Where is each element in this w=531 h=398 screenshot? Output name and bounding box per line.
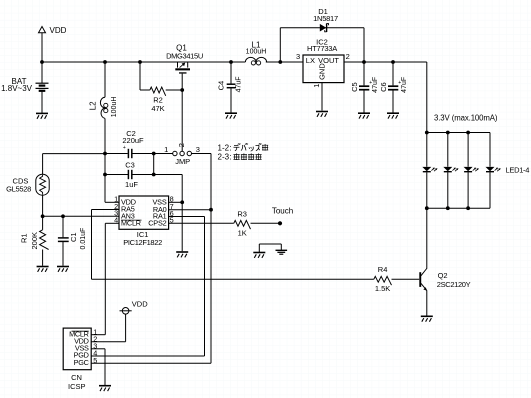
svg-text:R1: R1 [19,233,28,243]
wire IC1 VDD pin1 [105,201,119,203]
transistor Q2 2SC2120Y (NPN) [419,208,470,315]
power symbol VDD (ICSP) [91,299,148,341]
wire LED top bus [427,132,490,134]
note 1-2 debug / 2-3 normal [218,143,269,161]
svg-text:5: 5 [93,356,97,365]
resistor R1 200K [19,216,48,265]
svg-text:R3: R3 [237,210,247,219]
svg-text:R4: R4 [378,265,388,274]
svg-text::: : [230,143,232,152]
junction rail-C4 [229,60,233,64]
wire IC1 RA1 pin6 to ICSP PGD [91,217,204,357]
junction C3 right [152,173,156,177]
svg-text:47uF: 47uF [401,77,408,93]
svg-text:DMG3415U: DMG3415U [166,51,203,60]
junction rail-D1/LX [278,60,282,64]
ground (C6) [387,113,399,118]
junction AN3-R1 [41,214,45,218]
svg-text:C3: C3 [125,160,135,169]
svg-text:Q2: Q2 [438,271,448,280]
wire VBAT rail (y=62) [42,61,303,63]
svg-text:VDD: VDD [132,299,148,308]
svg-text:C1: C1 [69,232,78,242]
resistor R3 1K [169,210,280,238]
svg-text:CPS2: CPS2 [148,219,166,228]
svg-text:PIC12F1822: PIC12F1822 [123,238,162,247]
svg-text:2: 2 [346,52,350,61]
junction R2-gate [180,88,184,92]
svg-text:LED1-4: LED1-4 [506,165,530,174]
capacitor C5 47uF (electrolytic) [350,62,379,113]
svg-text:1: 1 [164,145,168,154]
svg-text:100uH: 100uH [111,97,118,118]
svg-text:LX: LX [306,56,315,65]
resistor R4 1.5K [374,265,419,293]
junction LED bottom bus [446,206,450,210]
LED1 [422,133,437,209]
wire touch ground pad [259,244,281,252]
label LED1-4 [506,165,530,174]
junction RA0-PGC column [209,208,213,212]
svg-text:47uF: 47uF [236,76,243,92]
ground (battery) [36,113,48,118]
junction LED top bus [466,131,470,135]
svg-text:1N5817: 1N5817 [313,14,338,23]
capacitor C1 0.01uF [58,216,87,265]
ground (IC2) [316,112,328,117]
wire IC1 RA0 pin7 [169,209,211,211]
svg-text:0.01uF: 0.01uF [80,228,87,250]
wire Q1 gate down to JMP pin2 [181,74,183,152]
junction rail-R2 [138,60,142,64]
svg-text:L2: L2 [89,101,98,110]
svg-text:GND: GND [317,63,326,80]
junction C3 left [103,173,107,177]
wire C2-C3 tie [153,154,155,175]
junction VSS-C3 net [180,200,184,204]
earth ground (touch) [276,250,288,254]
svg-text:C5: C5 [350,82,359,92]
svg-text:2SC2120Y: 2SC2120Y [437,280,471,289]
wire JMP pin3 to RA0/PGC column [91,154,211,364]
svg-text:2-3: 2-3 [218,153,230,162]
connector JMP (3-pin jumper) [164,143,200,166]
svg-text:1.8V~3V: 1.8V~3V [1,84,33,93]
svg-text:PGC: PGC [74,358,89,367]
junction rail-BAT [40,60,44,64]
wire AN3 net (CDS/R1/C1 to IC1 pin3) [43,215,119,217]
inductor L1 100uH [245,41,266,65]
ground (C4) [225,113,237,118]
svg-text:CN: CN [71,373,82,382]
svg-text:220uF: 220uF [122,136,144,145]
wire VOUT rail to LED branch [344,62,427,133]
ground (C5) [358,113,370,118]
junction VOUT-C5/D1 [362,60,366,64]
svg-text:JMP: JMP [175,157,190,166]
transistor Q1 DMG3415U (P-ch MOSFET) [166,44,203,74]
junction C2 right [152,152,156,156]
capacitor C4 47uF [216,62,242,113]
net label 3.3V (max.100mA) [434,113,498,122]
junction AN3-C1 [61,214,65,218]
junction LED top bus [425,131,429,135]
svg-text:2: 2 [177,143,186,147]
ground (touch pad) [253,253,265,258]
svg-text:VDD: VDD [50,26,67,35]
battery BAT 1.8V~3V [1,62,48,113]
svg-text:C4: C4 [216,81,225,91]
wire IC1 MCLR pin4 to ICSP [91,223,119,334]
svg-text:3: 3 [296,52,300,61]
terminal Touch [272,206,293,225]
svg-text:1uF: 1uF [125,180,138,189]
svg-text:3.3V (max.100mA): 3.3V (max.100mA) [434,113,498,122]
ground (C1) [57,267,69,272]
svg-text:100uH: 100uH [246,48,267,55]
ground (ICSP VSS) [99,386,111,391]
connector CN ICSP [63,327,97,391]
junction LED top bus [446,131,450,135]
capacitor C3 1uF [105,160,182,188]
svg-text:R2: R2 [153,95,163,104]
LED3 [464,133,479,209]
inductor L2 100uH [89,62,119,202]
svg-text:1-2: 1-2 [218,143,230,152]
svg-text:47K: 47K [151,104,164,113]
LED2 [443,133,458,209]
IC U1 PIC12F1822 [114,195,174,247]
capacitor C2 220uF (electrolytic) [105,129,173,158]
svg-text::: : [230,153,232,162]
junction LED bottom bus [425,206,429,210]
capacitor C6 47uF (electrolytic) [379,62,408,113]
svg-text:1K: 1K [238,228,247,237]
svg-text:C6: C6 [379,82,388,92]
ground (R1) [37,267,49,272]
power symbol VDD (top-left) [39,26,67,35]
resistor R2 47K [140,62,182,113]
wire IC1 RA5 pin2 to R4 [92,210,374,280]
wire VDD stem to rail [41,33,43,62]
wire LED bottom bus [427,207,490,209]
junction VOUT-C6 [391,60,395,64]
op-amp/regulator IC2 HT7733A [296,37,350,87]
svg-text:1.5K: 1.5K [375,284,390,293]
photoresistor CDS GL5528 [6,154,105,217]
junction LED bottom bus [466,206,470,210]
svg-text:1: 1 [312,84,321,88]
svg-text:+: + [123,145,126,151]
svg-text:HT7733A: HT7733A [307,44,337,53]
LED4 [486,133,501,209]
svg-text:ICSP: ICSP [68,382,86,391]
wire IC1 VSS pin8 to ground [169,175,183,252]
svg-text:GL5528: GL5528 [6,185,31,194]
ground (Q2 emitter) [421,316,433,321]
svg-text:3: 3 [196,145,200,154]
wire ICSP VSS to ground [91,349,105,385]
wire IC2 GND pin to ground [321,83,323,111]
ground (IC1 VSS) [176,252,188,257]
junction C2 left (L2 line) [103,152,107,156]
svg-text:Touch: Touch [272,206,293,215]
svg-text:200K: 200K [30,232,39,250]
junction rail-L2 [103,60,107,64]
diode D1 1N5817 (Schottky) [280,7,364,62]
